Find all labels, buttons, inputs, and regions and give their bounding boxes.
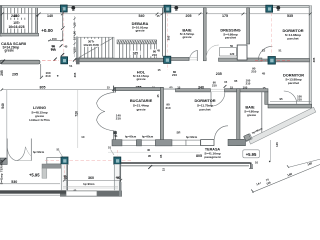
corridor wall under stairs <box>76 58 164 62</box>
tick left end <box>1 60 5 64</box>
living south wall left segment <box>0 158 7 165</box>
svg-text:gresie: gresie <box>135 28 144 32</box>
svg-text:210: 210 <box>116 117 121 121</box>
dim line vertical x74.5 <box>74 16 76 57</box>
svg-text:295: 295 <box>0 70 4 76</box>
right edge band lower <box>119 182 122 196</box>
vertical line right of hall <box>62 8 64 41</box>
svg-text:15: 15 <box>156 14 160 18</box>
corridor wall right of marker C with doors <box>171 57 189 60</box>
svg-text:51: 51 <box>278 49 282 53</box>
wall band below marker E <box>61 164 68 190</box>
hatched wall below DEBARA <box>117 40 157 44</box>
door leaf BAIE <box>196 50 198 61</box>
window 2 <box>142 140 156 145</box>
wall left edge of stair2 block <box>76 37 78 59</box>
svg-text:210: 210 <box>246 82 251 86</box>
svg-text:hp=90cm: hp=90cm <box>186 135 198 139</box>
staircase flight 3 <box>117 44 157 58</box>
svg-text:210: 210 <box>297 98 302 102</box>
wall BAIE/DRESSING separator <box>203 8 206 61</box>
opening kitchen door <box>163 88 176 90</box>
svg-text:10: 10 <box>255 161 259 165</box>
svg-text:360: 360 <box>88 176 94 180</box>
svg-text:51: 51 <box>108 146 112 150</box>
svg-text:95: 95 <box>279 97 283 101</box>
svg-text:51: 51 <box>56 147 60 151</box>
wall top exterior <box>2 6 312 8</box>
svg-text:15: 15 <box>72 37 76 41</box>
svg-text:hp=90cm: hp=90cm <box>125 135 137 139</box>
dim line 805 living <box>2 89 114 91</box>
hinge blob living door <box>113 131 117 134</box>
svg-text:50: 50 <box>230 44 234 48</box>
svg-text:175: 175 <box>222 14 228 18</box>
door jamb line <box>40 64 42 78</box>
red axis vertical D <box>271 13 273 55</box>
svg-text:210: 210 <box>165 106 170 110</box>
tick on terrace edge <box>148 165 152 169</box>
window 4 <box>186 140 201 145</box>
terrace thin edge line <box>108 151 200 153</box>
stair 2 diagonal <box>79 38 113 58</box>
pier left (living east wall top) <box>112 140 122 146</box>
staircase flight 1 treads <box>2 8 37 33</box>
double door living arcs <box>97 92 115 111</box>
svg-text:540: 540 <box>139 14 145 18</box>
door leaf dormitor center <box>210 92 212 106</box>
svg-text:385: 385 <box>167 35 171 40</box>
lower wall with window <box>60 191 122 197</box>
lower diagonal line <box>252 165 320 193</box>
wall hol south kitchen top <box>115 87 164 90</box>
wall dormitor/baie separator <box>237 89 240 146</box>
svg-text:15: 15 <box>162 168 166 172</box>
svg-text:40: 40 <box>63 174 67 178</box>
svg-text:hp=90cm: hp=90cm <box>33 150 45 154</box>
level box +5.95 terrace <box>243 150 260 158</box>
svg-text:165: 165 <box>133 51 139 55</box>
svg-text:+5.95: +5.95 <box>29 173 40 178</box>
svg-text:295: 295 <box>12 72 18 76</box>
svg-text:15: 15 <box>157 68 161 72</box>
door arc DRESSING <box>206 45 219 58</box>
wall living/kitchen separator <box>114 87 116 146</box>
pier <box>137 140 142 146</box>
wall dormitor top <box>176 89 211 92</box>
wall dormitorR west <box>265 92 268 105</box>
svg-text:51: 51 <box>114 134 118 138</box>
step tick at wall start <box>113 86 115 92</box>
svg-text:pavegment: pavegment <box>204 155 220 159</box>
svg-text:+5.95: +5.95 <box>246 152 257 157</box>
wall living west <box>6 90 8 158</box>
terrace door arcs <box>7 147 25 161</box>
svg-text:BUCATARIE: BUCATARIE <box>130 98 153 103</box>
svg-text:SR: SR <box>177 131 181 135</box>
door opening dormitor center <box>211 89 225 91</box>
svg-text:65: 65 <box>234 79 238 83</box>
wall baieR east <box>261 92 263 133</box>
window 5 <box>201 140 214 146</box>
svg-text:45: 45 <box>157 49 161 53</box>
svg-text:240: 240 <box>11 14 17 18</box>
terrace right corner down <box>250 163 252 169</box>
dim ticks top <box>1 13 312 16</box>
window 1 <box>122 140 137 145</box>
sill below window <box>42 164 61 168</box>
svg-text:120: 120 <box>230 52 235 56</box>
svg-text:210: 210 <box>172 73 177 77</box>
corner blob corridor wall left <box>76 58 80 65</box>
svg-text:gresie: gresie <box>136 108 145 112</box>
terrace door arc <box>215 126 229 140</box>
wall below staircase <box>0 33 39 36</box>
stair 2 label <box>82 39 101 47</box>
svg-text:+0.00: +0.00 <box>41 28 53 33</box>
svg-text:25: 25 <box>72 22 76 26</box>
svg-text:210: 210 <box>45 74 50 78</box>
door arc dormitorR south <box>284 91 297 104</box>
wall DRESSING right <box>247 8 250 44</box>
lower diagonal upper segment <box>289 159 320 167</box>
svg-text:45: 45 <box>262 72 266 76</box>
north/level blob right of marker A <box>71 6 75 10</box>
svg-text:95: 95 <box>159 154 163 158</box>
door arc BAIE <box>189 50 197 61</box>
axis marker F <box>114 157 121 164</box>
sill lines lower <box>63 187 118 188</box>
svg-text:140: 140 <box>47 14 53 18</box>
svg-text:65: 65 <box>169 85 173 89</box>
wall elbow at ramp foot <box>244 134 251 141</box>
thin line right of baie <box>269 140 271 161</box>
pier center <box>156 140 173 146</box>
svg-text:90: 90 <box>72 31 76 35</box>
closet rect DRESSING <box>220 48 237 56</box>
svg-text:45: 45 <box>64 45 68 49</box>
staircase flight 2 <box>78 37 114 58</box>
red axis vertical A <box>63 13 65 57</box>
wall right exterior <box>309 6 312 109</box>
svg-text:385: 385 <box>312 57 316 62</box>
wall left of staircase <box>0 6 2 37</box>
axis marker C mid <box>164 56 171 63</box>
door arc DORMITOR right <box>258 46 272 60</box>
blob right of marker C <box>276 6 280 10</box>
red dashes near E <box>45 160 112 162</box>
svg-text:H.liber=3.75m: H.liber=3.75m <box>29 118 49 122</box>
stair label 240 <box>8 13 26 17</box>
svg-text:115: 115 <box>73 47 77 52</box>
svg-text:gresie: gresie <box>247 113 256 117</box>
svg-text:210: 210 <box>152 53 157 57</box>
wall DEBARA right / BAIE left <box>162 8 164 57</box>
window 3 <box>172 140 186 145</box>
stair 3 label 165 <box>130 51 141 55</box>
svg-text:TERASA: TERASA <box>0 159 3 172</box>
svg-text:805: 805 <box>40 85 46 89</box>
wall dormitor top right <box>225 89 269 92</box>
svg-text:150: 150 <box>52 37 57 41</box>
svg-text:LIVING: LIVING <box>33 105 46 110</box>
tick on hall line <box>61 26 65 30</box>
svg-text:15: 15 <box>107 85 111 89</box>
svg-text:530: 530 <box>11 180 17 184</box>
svg-text:210: 210 <box>51 47 56 51</box>
svg-text:gresie: gresie <box>182 35 191 39</box>
wall kitchen/dormitor separator <box>160 87 163 140</box>
axis marker D mid <box>268 57 275 65</box>
red axis vertical C <box>166 13 168 70</box>
svg-text:535: 535 <box>287 14 293 18</box>
svg-text:235: 235 <box>216 72 222 76</box>
svg-text:16x16.4/28: 16x16.4/28 <box>9 25 25 29</box>
dimension line top <box>2 13 310 15</box>
svg-text:hp=90cm: hp=90cm <box>142 135 154 139</box>
svg-text:210: 210 <box>212 83 217 87</box>
blob right of marker B <box>174 6 178 10</box>
tick right of opening <box>224 85 227 88</box>
svg-text:95: 95 <box>148 154 152 158</box>
window living south <box>47 158 62 164</box>
svg-text:45: 45 <box>156 94 160 97</box>
svg-text:parchet: parchet <box>225 36 236 40</box>
svg-text:1S: 1S <box>262 49 266 53</box>
svg-text:gresie: gresie <box>5 49 15 53</box>
axis marker top C <box>266 5 273 12</box>
door label 80/210 over stair3 <box>150 49 159 56</box>
wall dormitorR south <box>268 104 312 108</box>
south facade wall band <box>112 126 246 146</box>
wall stub left of marker D <box>262 59 268 62</box>
svg-text:parchet: parchet <box>288 81 299 85</box>
svg-text:DORMITOR: DORMITOR <box>194 98 215 103</box>
axis marker B mid <box>61 57 68 64</box>
shower rect <box>237 45 247 60</box>
ramp diagonal upper <box>244 107 316 144</box>
svg-text:40: 40 <box>117 176 121 180</box>
wall marker D to right wall <box>276 59 310 62</box>
door opening BAIE <box>189 58 197 60</box>
terrace double door leaves <box>7 139 31 161</box>
svg-text:hp=90cm: hp=90cm <box>83 182 95 186</box>
axis marker E <box>61 157 68 164</box>
wall CASA SCARII south <box>0 60 40 64</box>
svg-text:parchet: parchet <box>199 108 210 112</box>
svg-text:305: 305 <box>73 72 77 77</box>
svg-text:205: 205 <box>186 14 192 18</box>
svg-text:805: 805 <box>196 154 202 158</box>
ticks around marker B <box>54 58 77 62</box>
svg-text:51: 51 <box>69 64 73 68</box>
dim line vertical 720 <box>77 90 79 148</box>
stair run label <box>7 20 27 29</box>
terrace edge double line <box>121 162 251 164</box>
svg-text:10x16.7/28: 10x16.7/28 <box>83 43 99 47</box>
door arc dormitor center <box>211 92 225 106</box>
corridor wall to marker D <box>219 58 263 61</box>
dim line small hall <box>48 39 63 42</box>
svg-text:210: 210 <box>251 70 256 74</box>
svg-text:145: 145 <box>275 142 279 147</box>
wall right of door <box>228 139 246 145</box>
svg-text:gresie: gresie <box>136 77 145 81</box>
svg-text:parchet: parchet <box>287 36 298 40</box>
red axis dashes horizontal left <box>42 60 59 62</box>
staircase flight 1 right edge <box>36 8 38 33</box>
terrace bottom dark wall <box>0 190 66 193</box>
svg-text:15: 15 <box>224 80 228 84</box>
svg-text:40: 40 <box>147 148 151 152</box>
svg-text:S=41mp: S=41mp <box>0 173 3 184</box>
svg-text:1C: 1C <box>81 135 84 139</box>
axis marker top A <box>60 5 67 12</box>
axis marker top B <box>164 5 171 12</box>
svg-text:540: 540 <box>1 103 5 109</box>
